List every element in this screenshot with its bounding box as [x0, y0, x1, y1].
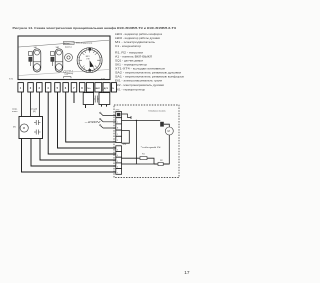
wire: bottom rail through R2 — [122, 163, 170, 165]
capacitor C1 inside box — [34, 120, 41, 135]
svg-text:4: 4 — [117, 155, 118, 157]
svg-text:ВКЛ: ВКЛ — [96, 88, 101, 90]
label: left box caption (конф/плита) — [12, 108, 18, 114]
svg-text:1: 1 — [117, 134, 118, 136]
wire: terminal 2 to motor box — [30, 92, 32, 117]
label LED1,2 — [64, 70, 74, 74]
switch SA1 (hotplate selector) — [29, 49, 41, 72]
wire: terminal 1 to motor box — [21, 92, 23, 117]
label: right box caption (общий N) — [31, 108, 37, 114]
wire: terminal 5 down — [58, 92, 117, 148]
wire: box bottom left down — [31, 139, 116, 167]
svg-text:5: 5 — [117, 161, 118, 163]
node ~230V supply leads — [101, 113, 116, 128]
svg-text:С1 - конденсатор: С1 - конденсатор — [115, 44, 141, 48]
svg-text:ЕК2 - электронагреватель духов: ЕК2 - электронагреватель духовки — [115, 83, 164, 87]
svg-text:L: L — [117, 122, 118, 124]
label ЕК1-4 (above lamp) — [63, 42, 74, 49]
wire: staircase runs to strip XT3 — [22, 92, 117, 172]
door switch SQ1 — [160, 122, 164, 127]
wire: strip to door switch run — [122, 121, 161, 165]
wire: strip to door switch and motor — [122, 114, 132, 119]
motor M2 (fan in oven) — [165, 127, 173, 135]
capacitor symbol between boxes — [94, 96, 99, 103]
motor unit box A1 — [19, 117, 43, 139]
terminal block XT1 (horizontal row) — [18, 83, 117, 92]
wire: strip loop — [122, 131, 130, 144]
wire: box bottom right down — [40, 139, 116, 161]
relay box K1 — [83, 93, 93, 105]
svg-text:*общий N: *общий N — [141, 146, 162, 149]
legend list — [115, 32, 185, 92]
timer PV1 (clock dial) — [77, 48, 102, 73]
wire: panel top edge contour — [19, 40, 109, 47]
wire: switch to motor — [164, 124, 170, 127]
wire: relay K2 stub left — [101, 105, 103, 107]
wire: strip to R1 — [122, 157, 141, 159]
svg-text:Клеммная панель: Клеммная панель — [149, 111, 166, 113]
svg-text:2: 2 — [117, 140, 118, 142]
svg-text:ЕК1-4: ЕК1-4 — [64, 43, 70, 45]
svg-text:17: 17 — [184, 270, 190, 276]
svg-text:Рисунок 14. Схема электрическа: Рисунок 14. Схема электрическая принципи… — [13, 26, 177, 30]
terminal strip XT3 (upper group) — [116, 112, 122, 143]
lamp SB1 — [65, 54, 73, 62]
label: ground glyph in top cell — [117, 113, 120, 116]
svg-text:3: 3 — [117, 150, 118, 152]
wire: R1 to down — [147, 158, 154, 164]
labels: terminal numbers — [20, 86, 114, 90]
wire: relay K1 stub — [85, 105, 87, 108]
wire: terminal 7 stub — [73, 92, 75, 103]
svg-text:(N): (N) — [33, 111, 36, 113]
wire: relay K2 stub right — [106, 105, 108, 107]
wire: terminal 1 down — [22, 139, 117, 173]
wire: terminal 4 down — [48, 92, 116, 154]
wire: terminal 3 to motor box — [38, 92, 40, 117]
svg-text:~230V: ~230V — [85, 120, 101, 124]
switch SA2 (oven selector) — [51, 49, 63, 72]
oven unit dashed enclosure — [114, 105, 179, 178]
motor M1 — [20, 124, 28, 132]
svg-text:ДУХ: ДУХ — [104, 88, 109, 90]
svg-text:ХТ2: ХТ2 — [65, 74, 68, 76]
svg-text:ЕВ1-4 (духовка): ЕВ1-4 (духовка) — [76, 43, 92, 45]
svg-text:(плита): (плита) — [67, 73, 74, 75]
svg-text:RK1 - терморегулятор: RK1 - терморегулятор — [115, 88, 145, 92]
svg-text:М: М — [168, 129, 170, 133]
label: strip cell marks — [117, 122, 119, 175]
svg-text:7: 7 — [117, 172, 118, 174]
svg-text:6: 6 — [117, 167, 118, 169]
bracket over terminals 6-7 — [64, 77, 72, 79]
wire: terminal 6 down — [66, 92, 116, 142]
svg-text:плита: плита — [12, 111, 18, 113]
panel frame (control panel outline) — [18, 36, 110, 80]
wire: panel bottom edge contour — [19, 70, 109, 76]
wire: motor down to bottom rail — [122, 135, 170, 164]
relay box K2 — [99, 93, 110, 105]
svg-text:(гриль): (гриль) — [65, 46, 72, 48]
terminal strip XT4 (lower group) — [116, 146, 122, 175]
